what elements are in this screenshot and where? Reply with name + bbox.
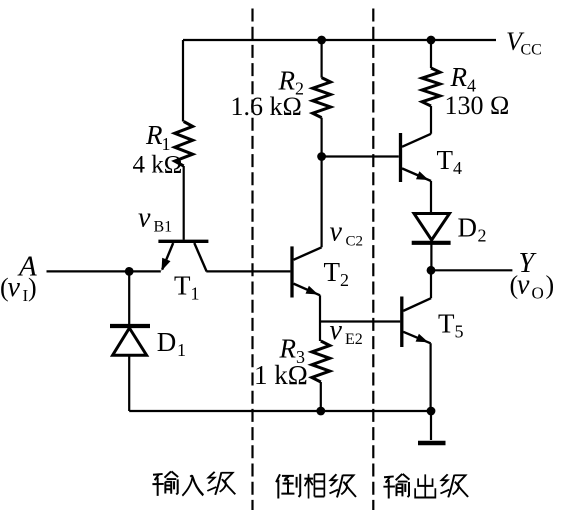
- svg-text:CC: CC: [521, 42, 542, 59]
- svg-text:): ): [546, 271, 555, 300]
- svg-text:C2: C2: [346, 234, 364, 250]
- svg-text:R: R: [450, 62, 468, 92]
- svg-text:1: 1: [177, 340, 186, 360]
- svg-text:v: v: [8, 272, 21, 303]
- svg-text:T: T: [437, 145, 454, 175]
- svg-text:v: v: [138, 202, 151, 233]
- svg-text:B1: B1: [154, 218, 173, 235]
- svg-text:D: D: [157, 327, 177, 357]
- svg-text:v: v: [330, 315, 343, 346]
- svg-text:E2: E2: [345, 331, 363, 348]
- svg-text:v: v: [330, 217, 343, 248]
- svg-text:130 Ω: 130 Ω: [445, 91, 510, 120]
- svg-text:4: 4: [453, 158, 462, 178]
- svg-text:R: R: [279, 334, 297, 364]
- svg-text:1.6 kΩ: 1.6 kΩ: [231, 92, 302, 121]
- svg-text:v: v: [517, 270, 530, 301]
- svg-text:1 kΩ: 1 kΩ: [254, 360, 308, 390]
- svg-text:R: R: [145, 120, 163, 150]
- svg-text:T: T: [324, 257, 341, 287]
- svg-text:5: 5: [455, 321, 464, 341]
- svg-text:2: 2: [478, 225, 487, 245]
- svg-text:): ): [28, 273, 37, 302]
- svg-text:4 kΩ: 4 kΩ: [133, 152, 183, 179]
- svg-text:O: O: [532, 284, 544, 303]
- svg-text:T: T: [438, 309, 455, 339]
- svg-text:T: T: [174, 271, 191, 301]
- svg-text:D: D: [458, 213, 478, 243]
- svg-text:1: 1: [191, 284, 200, 304]
- svg-text:R: R: [278, 65, 296, 95]
- svg-text:2: 2: [340, 270, 349, 290]
